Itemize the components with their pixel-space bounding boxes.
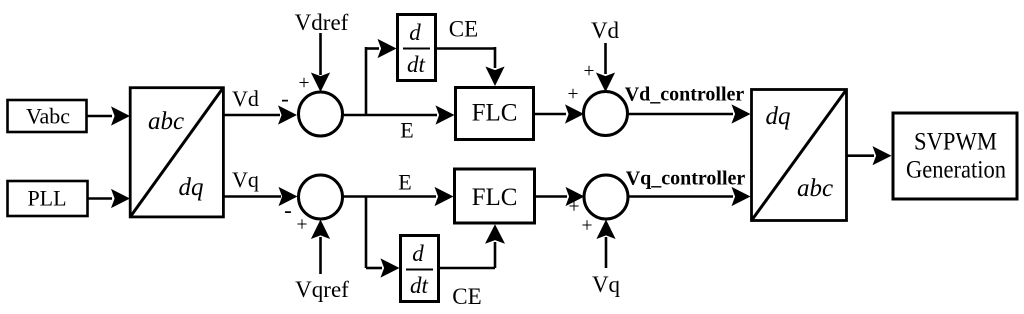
wire branch up to d/dt 1 bbox=[366, 39, 397, 115]
svg-text:+: + bbox=[584, 61, 595, 82]
block FLC 2 bbox=[455, 169, 535, 223]
svg-text:PLL: PLL bbox=[27, 186, 66, 211]
wire d/dt 1 to FLC1 top bbox=[437, 47, 505, 86]
wire sum4 to dq/abc bbox=[628, 187, 751, 206]
svg-text:d: d bbox=[412, 241, 424, 266]
wire Vdref into sum1 bbox=[311, 33, 330, 92]
svg-text:dq: dq bbox=[766, 103, 791, 130]
svg-text:Vq: Vq bbox=[592, 272, 621, 297]
summing junction sum1 (d-axis error) bbox=[299, 92, 343, 136]
svg-text:+: + bbox=[299, 73, 310, 94]
svg-text:CE: CE bbox=[449, 17, 478, 42]
svg-text:E: E bbox=[400, 118, 413, 143]
wire d/dt 2 to FLC2 bottom bbox=[440, 224, 506, 268]
wire dq/abc to SVPWM bbox=[847, 146, 892, 165]
wire Vqref into sum2 bbox=[311, 220, 330, 275]
svg-text:+: + bbox=[569, 197, 580, 218]
wire branch down to d/dt 2 bbox=[366, 197, 400, 278]
block d/dt 1 bbox=[398, 15, 436, 81]
wire FLC2 to sum4 bbox=[536, 187, 585, 206]
block Vabc bbox=[8, 100, 87, 132]
summing junction sum2 (q-axis error) bbox=[299, 175, 343, 219]
summing junction sum3 (Vd feedforward) bbox=[584, 92, 628, 136]
block d/dt 2 bbox=[401, 236, 439, 302]
svg-text:+: + bbox=[568, 84, 579, 105]
svg-text:d: d bbox=[409, 20, 421, 45]
wire abc/dq to sum1 bbox=[224, 105, 297, 124]
wire sum3 to dq/abc bbox=[628, 104, 751, 123]
svg-text:Vabc: Vabc bbox=[26, 104, 70, 129]
svg-text:FLC: FLC bbox=[472, 100, 518, 127]
block SVPWM Generation bbox=[893, 113, 1017, 199]
transform dq/abc bbox=[752, 90, 847, 221]
svg-text:-: - bbox=[281, 86, 289, 111]
svg-text:E: E bbox=[398, 170, 411, 195]
svg-text:FLC: FLC bbox=[472, 184, 518, 211]
svg-text:Generation: Generation bbox=[906, 157, 1006, 184]
wire PLL to abc/dq bbox=[88, 189, 131, 208]
svg-text:SVPWM: SVPWM bbox=[914, 129, 997, 156]
svg-text:dt: dt bbox=[410, 273, 429, 298]
svg-text:abc: abc bbox=[797, 175, 833, 202]
svg-text:Vdref: Vdref bbox=[295, 10, 349, 35]
svg-text:-: - bbox=[284, 198, 292, 223]
svg-text:CE: CE bbox=[452, 284, 481, 309]
block FLC 1 bbox=[456, 88, 534, 140]
svg-text:Vq: Vq bbox=[232, 167, 259, 192]
wire FLC1 to sum3 bbox=[535, 104, 585, 123]
transform abc/dq bbox=[130, 88, 223, 217]
svg-text:Vq_controller: Vq_controller bbox=[626, 168, 746, 190]
wire Vabc to abc/dq bbox=[87, 106, 131, 125]
svg-text:abc: abc bbox=[148, 108, 184, 135]
svg-text:Vd_controller: Vd_controller bbox=[625, 84, 745, 106]
wire sum2 to FLC2 (E path) bbox=[343, 187, 454, 206]
wire Vq into sum4 bbox=[596, 220, 615, 269]
svg-text:Vd: Vd bbox=[591, 18, 620, 43]
wire Vd into sum3 bbox=[596, 43, 615, 92]
svg-text:Vd: Vd bbox=[232, 86, 259, 111]
summing junction sum4 (Vq feedforward) bbox=[584, 175, 628, 219]
svg-text:+: + bbox=[297, 215, 308, 236]
svg-text:dt: dt bbox=[407, 52, 426, 77]
block PLL bbox=[8, 181, 88, 216]
svg-text:+: + bbox=[582, 216, 593, 237]
wire abc/dq to sum2 bbox=[224, 187, 298, 206]
svg-text:dq: dq bbox=[179, 174, 204, 201]
svg-text:Vqref: Vqref bbox=[295, 277, 349, 302]
wire sum1 to FLC1 (E path) bbox=[343, 105, 455, 124]
